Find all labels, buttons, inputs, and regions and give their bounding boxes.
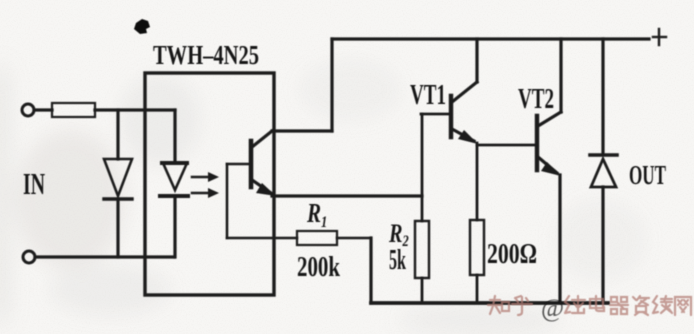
svg-text:5k: 5k [389, 245, 406, 276]
svg-text:IN: IN [23, 166, 45, 201]
svg-text:200Ω: 200Ω [487, 239, 537, 270]
svg-text:VT2: VT2 [518, 84, 554, 115]
svg-text:@: @ [541, 295, 564, 322]
svg-text:VT1: VT1 [410, 80, 446, 111]
svg-text:200k: 200k [297, 252, 340, 283]
svg-text:OUT: OUT [629, 160, 666, 190]
svg-text:TWH–4N25: TWH–4N25 [153, 40, 259, 70]
